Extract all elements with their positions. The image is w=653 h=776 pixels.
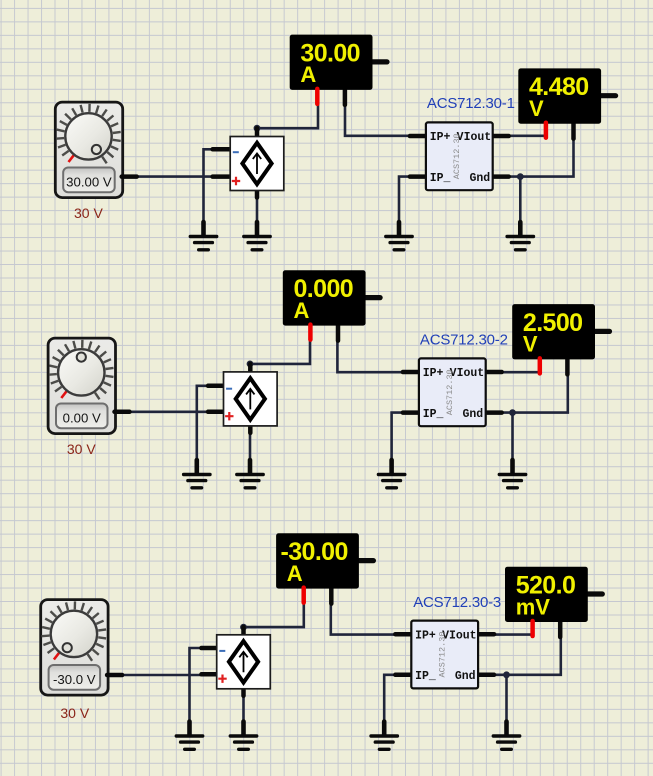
pin stub IP+ (U1 pin 1): [410, 134, 428, 139]
svg-text:IP_: IP_: [430, 172, 451, 185]
polarity mark "-" of CS3: [219, 650, 225, 652]
CS3 body outline: [217, 635, 271, 689]
CS3 upward arrow: [239, 652, 247, 673]
IC U2 body: [419, 358, 486, 426]
svg-text:IP_: IP_: [415, 670, 436, 683]
controlled current source CS3 (diamond symbol): [201, 627, 270, 696]
svg-text:Gnd: Gnd: [469, 172, 490, 185]
black display body of ammeter #3: [276, 533, 359, 588]
bottom output pin stub of CS3: [241, 683, 246, 696]
wire CS3 output+ up to ammeter A3 red pin: [244, 603, 304, 628]
controlled current source CS2 (diamond symbol): [208, 364, 277, 433]
pin stub Gnd (U1 pin 5): [491, 174, 509, 179]
wire ammeter A1 black pin to U1 IP+: [345, 104, 410, 136]
red + pin of meter #2: [538, 358, 543, 373]
knob #1 red index pointer: [69, 155, 74, 162]
svg-text:A: A: [287, 561, 303, 586]
wire knob1 + to CS1 plus input: [137, 175, 213, 178]
wire CS1 minus input to ground: [204, 149, 213, 224]
top output pin stub of CS3: [241, 627, 246, 641]
polarity mark "-" of CS2: [226, 388, 232, 390]
knob #1 readout display box: [63, 168, 114, 193]
junction node CS2 top node: [247, 361, 254, 368]
wire knob3 + to CS3 plus input: [123, 674, 201, 677]
CS1 body outline: [230, 137, 284, 191]
ground (U3 IP_, circuit 3): [371, 722, 397, 750]
junction node U2 Gnd node: [509, 409, 516, 416]
pin stub IP+ (U3 pin 1): [395, 632, 413, 637]
right side pin stub of voltmeter #1: [601, 93, 616, 98]
ammeter digital meter display #3 (-30.00 A): [276, 533, 373, 603]
black - pin of voltmeter #2: [565, 359, 570, 374]
CS3 diamond current-source symbol: [229, 641, 258, 682]
control input pin stub (+) of CS1: [213, 174, 234, 179]
red + pin of meter #2: [308, 325, 313, 340]
svg-text:IP+: IP+: [415, 629, 436, 642]
ground (CS1 minus, circuit 1): [190, 222, 216, 250]
wire U2 VIout to voltmeter V2 red pin: [502, 371, 541, 374]
voltmeter digital meter display #3 (520.0 mV): [505, 567, 602, 637]
wire CS3 output- to ground: [242, 689, 245, 724]
black display body of voltmeter #2: [512, 304, 595, 359]
right side pin stub of ammeter #1: [373, 59, 388, 64]
knob #1 position indicator dot: [92, 145, 101, 154]
svg-text:IP+: IP+: [430, 131, 451, 144]
IC U3 ACS712 current sensor: [395, 621, 494, 689]
pin stub IP_ (U1 pin 2): [410, 174, 428, 179]
svg-text:ACS712.30-3: ACS712.30-3: [413, 594, 501, 611]
bottom output pin stub of CS1: [255, 185, 260, 198]
ground (U2 IP_, circuit 2): [378, 460, 404, 488]
knob #1 scale tick marks: [56, 104, 121, 163]
svg-text:IP+: IP+: [423, 367, 444, 380]
pin stub VIout (U2 pin 7): [484, 370, 502, 375]
black - pin of ammeter #3: [329, 589, 334, 604]
knob #2 readout display box: [56, 404, 108, 429]
svg-text:30 V: 30 V: [60, 705, 89, 721]
wire voltmeter V1 black pin to U1 Gnd: [509, 138, 574, 177]
pin stub IP_ (U3 pin 2): [395, 673, 413, 678]
wire CS3 minus input to ground: [190, 648, 202, 724]
polarity mark "+" of CS1: [232, 177, 240, 185]
knob #3 position indicator dot: [63, 643, 72, 652]
knob #3 readout display box: [49, 665, 101, 690]
wire CS2 minus input to ground: [197, 386, 208, 462]
adjustable voltage source knob control #1 (30.00 V): [55, 102, 136, 198]
knob #3 rotary dial face: [51, 611, 97, 657]
IC U1 ACS712 current sensor: [410, 122, 509, 190]
control input pin stub (-) of CS3: [201, 646, 219, 651]
ground (CS3 output, circuit 3): [230, 722, 256, 750]
red + pin of meter #3: [301, 588, 306, 603]
junction node U3 Gnd node: [503, 671, 510, 678]
pin stub Gnd (U3 pin 5): [476, 673, 494, 678]
ground (CS1 output, circuit 1): [244, 222, 270, 250]
right side pin stub of voltmeter #2: [595, 329, 610, 334]
IC U3 body: [411, 621, 478, 689]
knob #1 rotary dial face: [65, 113, 111, 159]
wire U2 Gnd net to ground: [511, 413, 514, 462]
knob #2 body box: [48, 338, 115, 434]
wire CS2 output- to ground: [249, 427, 252, 463]
svg-text:Gnd: Gnd: [455, 670, 476, 683]
ground (CS3 minus, circuit 3): [176, 722, 202, 750]
IC U2 ACS712 current sensor: [403, 358, 502, 426]
wire ammeter A2 black pin to U2 IP+: [337, 340, 403, 372]
wire U1 VIout to voltmeter V1 red pin: [509, 135, 546, 138]
wire CS1 output- to ground: [256, 197, 259, 224]
svg-text:ACS712.30: ACS712.30: [452, 133, 462, 179]
right side pin stub of voltmeter #3: [588, 591, 603, 596]
black - pin of voltmeter #3: [558, 622, 563, 637]
svg-text:ACS712.30-2: ACS712.30-2: [420, 332, 508, 349]
adjustable voltage source knob control #2 (0.00 V): [48, 338, 129, 434]
control input pin stub (-) of CS2: [208, 384, 227, 389]
right side pin stub of ammeter #3: [359, 558, 374, 563]
knob #2 rotary dial face: [58, 349, 104, 395]
knob #3 scale tick marks: [42, 601, 107, 660]
wire CS2 output+ up to ammeter A2 red pin: [250, 339, 310, 364]
svg-text:-30.0 V: -30.0 V: [53, 672, 96, 687]
ground (U1 IP_, circuit 1): [386, 222, 412, 250]
svg-text:V: V: [529, 96, 544, 121]
svg-text:30 V: 30 V: [67, 441, 96, 457]
wire voltmeter V3 black pin to U3 Gnd: [495, 637, 561, 675]
top output pin stub of CS1: [255, 128, 260, 142]
knob #3 output pin stub: [107, 673, 122, 678]
pin stub Gnd (U2 pin 5): [484, 410, 502, 415]
top output pin stub of CS2: [248, 364, 253, 378]
polarity mark "-" of CS1: [233, 151, 239, 153]
svg-text:30 V: 30 V: [74, 205, 103, 221]
knob #2 red index pointer: [61, 391, 66, 398]
voltmeter digital meter display #2 (2.500 V): [512, 304, 609, 374]
wire knob2 + to CS2 plus input: [130, 410, 208, 413]
svg-text:A: A: [294, 298, 310, 323]
svg-text:30.00 V: 30.00 V: [66, 174, 112, 189]
polarity mark "+" of CS2: [225, 412, 233, 420]
knob #3 red index pointer: [54, 653, 59, 660]
wire U1 Gnd net to ground: [519, 177, 522, 224]
wire U2 IP_ to ground: [392, 413, 403, 462]
ground (U1 Gnd, circuit 1): [507, 222, 533, 250]
bottom output pin stub of CS2: [248, 420, 253, 433]
black display body of voltmeter #1: [518, 68, 601, 123]
knob #2 position indicator dot: [77, 353, 86, 362]
pin stub IP_ (U2 pin 2): [403, 410, 421, 415]
svg-text:ACS712.30: ACS712.30: [445, 369, 455, 415]
knob #1 body box: [55, 102, 122, 198]
black - pin of ammeter #2: [336, 326, 341, 341]
pin stub VIout (U3 pin 7): [476, 632, 494, 637]
ground (CS2 output, circuit 2): [237, 460, 263, 488]
black display body of voltmeter #3: [505, 567, 588, 622]
CS2 diamond current-source symbol: [236, 378, 265, 419]
ammeter digital meter display #1 (30.00 A): [290, 35, 387, 105]
IC U1 body: [426, 122, 493, 190]
wire U3 Gnd net to ground: [505, 675, 508, 724]
ground (U3 Gnd, circuit 3): [493, 722, 519, 750]
svg-text:mV: mV: [516, 594, 551, 619]
CS2 body outline: [224, 372, 278, 426]
red + pin of meter #1: [544, 123, 549, 138]
black display body of ammeter #1: [290, 35, 373, 90]
wire CS1 output+ up to ammeter A1 red pin: [257, 103, 318, 128]
junction node U1 Gnd node: [517, 173, 524, 180]
right side pin stub of ammeter #2: [366, 295, 381, 300]
knob #1 output pin stub: [122, 174, 137, 179]
wire ammeter A3 black pin to U3 IP+: [331, 603, 395, 635]
controlled current source CS1 (diamond symbol): [213, 128, 284, 197]
svg-text:A: A: [300, 62, 316, 87]
wire U1 IP_ to ground: [399, 177, 410, 224]
black display body of ammeter #2: [283, 270, 366, 325]
black - pin of voltmeter #1: [571, 124, 576, 139]
polarity mark "+" of CS3: [218, 675, 226, 683]
junction node CS1 top node: [254, 125, 261, 132]
svg-text:ACS712.30: ACS712.30: [437, 632, 447, 678]
knob #2 output pin stub: [115, 410, 130, 415]
control input pin stub (+) of CS2: [208, 410, 227, 415]
control input pin stub (+) of CS3: [201, 672, 219, 677]
CS1 diamond current-source symbol: [242, 143, 271, 184]
black - pin of ammeter #1: [343, 90, 348, 105]
svg-text:ACS712.30-1: ACS712.30-1: [427, 95, 515, 112]
adjustable voltage source knob control #3 (-30.0 V): [41, 600, 122, 696]
ammeter digital meter display #2 (0.000 A): [283, 270, 380, 340]
wire U3 VIout to voltmeter V3 red pin: [495, 633, 533, 636]
CS2 upward arrow: [246, 389, 254, 410]
pin stub VIout (U1 pin 7): [491, 134, 509, 139]
svg-text:V: V: [523, 332, 538, 357]
voltmeter digital meter display #1 (4.480 V): [518, 68, 615, 138]
wire voltmeter V2 black pin to U2 Gnd: [502, 373, 568, 413]
knob #2 scale tick marks: [49, 340, 114, 399]
junction node CS3 top node: [240, 624, 247, 631]
CS1 upward arrow: [253, 154, 261, 175]
ground (U2 Gnd, circuit 2): [499, 460, 525, 488]
red + pin of meter #3: [530, 621, 535, 636]
svg-text:0.00 V: 0.00 V: [63, 410, 101, 425]
ground (CS2 minus, circuit 2): [184, 460, 210, 488]
red + pin of meter #1: [315, 89, 320, 104]
svg-text:IP_: IP_: [423, 408, 444, 421]
knob #3 body box: [41, 600, 108, 696]
wire U3 IP_ to ground: [384, 675, 395, 724]
pin stub IP+ (U2 pin 1): [403, 370, 421, 375]
control input pin stub (-) of CS1: [213, 147, 234, 152]
svg-text:Gnd: Gnd: [462, 408, 483, 421]
